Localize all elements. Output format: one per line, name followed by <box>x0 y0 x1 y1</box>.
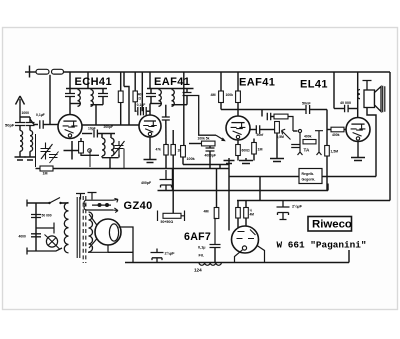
svg-text:2¼µF: 2¼µF <box>165 251 176 256</box>
svg-text:400k: 400k <box>304 134 312 138</box>
wire R4 leg lower <box>135 102 136 111</box>
wire tone right corner <box>288 117 293 132</box>
wire tone branch stub <box>261 110 263 117</box>
resistor R5 ECH41 grid leak <box>79 142 84 154</box>
mains terminal upper <box>26 200 28 207</box>
wire drop to IFT1 primary <box>69 72 71 89</box>
wire AVC link line <box>183 164 229 166</box>
tuning gang frame <box>35 134 37 167</box>
svg-text:50pF: 50pF <box>5 123 15 128</box>
wire 6AF7 bottom left <box>235 250 243 263</box>
wire drop to grid caps <box>141 72 143 111</box>
svg-text:0,1µF: 0,1µF <box>36 113 45 117</box>
wire IFT2 top rail <box>147 88 194 90</box>
tuning gang frame right <box>89 150 91 167</box>
mains terminal lower <box>26 248 28 255</box>
svg-text:200pF: 200pF <box>104 125 114 129</box>
wire IFT2 cap1 stem <box>150 89 152 94</box>
svg-text:47k: 47k <box>156 148 162 152</box>
wire branch2 stem <box>29 117 31 123</box>
wire drop to IFT1 secondary <box>87 72 89 89</box>
wire det cap stem <box>209 146 211 148</box>
wire R19 to grid cap <box>215 219 217 245</box>
wire heater center tap <box>172 169 174 191</box>
mains input terminal top-left <box>25 71 36 73</box>
tube GZ40 rectifier <box>95 219 121 245</box>
ground bar ECH41 cathode <box>64 141 81 160</box>
inductor antenna coil L2 <box>30 131 33 152</box>
resistor R15 tone <box>274 114 288 119</box>
svg-text:50 000: 50 000 <box>42 214 52 218</box>
variable capacitor tuning gang 2 <box>49 152 59 164</box>
svg-text:4000: 4000 <box>19 235 27 239</box>
wire detector feed <box>192 96 217 136</box>
svg-text:10pF: 10pF <box>88 127 96 131</box>
svg-text:400pF: 400pF <box>141 181 152 185</box>
wire AVC bus <box>53 168 229 170</box>
wire L1 stem <box>19 126 21 131</box>
svg-text:4000pF: 4000pF <box>205 154 216 158</box>
svg-text:Gegenk.: Gegenk. <box>302 178 316 182</box>
wire primary top lead <box>60 202 69 204</box>
resistor R21 6AF7 b <box>244 208 249 219</box>
svg-text:100k: 100k <box>226 93 234 97</box>
wire drop to output transformer and EL41 plate <box>357 72 359 118</box>
capacitor electrolytic 2x uF bottom <box>151 249 164 263</box>
box Regelb Gegenk <box>299 169 322 184</box>
wire B+ top bus <box>63 71 390 73</box>
wire feedback bottom line <box>237 200 390 202</box>
resistor 50+50 ohm hum balance <box>163 213 181 218</box>
wire bottom bus riser <box>348 250 350 263</box>
wire drop to R4 <box>134 72 136 91</box>
wire plate cap stem down <box>165 120 167 145</box>
inductor mains primary <box>64 203 68 253</box>
svg-text:1M: 1M <box>43 172 48 176</box>
capacitor electrolytic 2x uF right <box>277 201 290 220</box>
wire drop to R3 <box>120 72 122 91</box>
wire osc coil2 stem <box>110 134 112 139</box>
ground bar oscillator section <box>102 155 119 169</box>
wire IFT2 secondary bottom rail <box>172 104 188 106</box>
capacitor 4000 mains <box>31 234 41 237</box>
resistor R6 AVC on bus <box>40 166 53 171</box>
wire 40000 right lead <box>348 108 358 110</box>
resistor R9 diode load <box>181 146 186 158</box>
wire R17 bottom <box>326 156 328 191</box>
wire riser to gegenk box <box>327 184 329 191</box>
svg-text:100k: 100k <box>187 157 196 161</box>
svg-text:Fil.: Fil. <box>199 254 204 258</box>
inductor IFT1 primary coil <box>78 90 81 107</box>
resistor R13 cathode EAF41 second <box>236 145 241 156</box>
wire IFT2 secondary down to R9 <box>183 72 185 146</box>
wire R11 top <box>172 130 174 145</box>
svg-text:4M: 4M <box>204 210 209 214</box>
resistor R11 cathode 2 <box>171 145 175 156</box>
wire antenna branch link <box>20 116 30 118</box>
resistor R12 detector <box>202 141 216 146</box>
wire R19 top <box>216 169 218 208</box>
wire IFT2 cap1 lower stem <box>150 97 152 104</box>
wire tone line <box>221 109 306 111</box>
wire drop to screen of EL41 <box>333 72 335 109</box>
wire R3 leg <box>120 103 122 126</box>
wire IFT1 secondary bottom rail <box>91 104 104 106</box>
ground EAF41 second cathode <box>239 158 253 164</box>
wire R13 top <box>237 140 239 145</box>
hum balance end bars <box>158 211 185 222</box>
jack TA right pin <box>315 131 323 155</box>
capacitor 4000pF detector <box>206 148 215 151</box>
svg-text:0,1µ: 0,1µ <box>198 246 205 250</box>
wire grid cap out <box>146 110 149 112</box>
wire riser bracket <box>259 177 261 201</box>
wire R5 bottom corner <box>81 153 99 155</box>
wire 6AF7 right leg <box>257 246 265 263</box>
svg-text:Regelb.: Regelb. <box>302 172 315 176</box>
capacitor 50pF antenna <box>15 123 25 126</box>
heater winding loop with pilot lamps <box>84 200 113 210</box>
wire tap with bar <box>36 223 54 234</box>
svg-text:Riweco: Riweco <box>312 218 352 230</box>
wire IFT2 primary bottom rail <box>150 103 162 105</box>
wire drop to R8 <box>237 72 239 91</box>
inductor oscillator coil 1 <box>102 138 105 156</box>
wire EAF41 plate lead <box>149 104 151 116</box>
output transformer tee terminal <box>363 81 372 91</box>
variable capacitor tuning gang 1 <box>41 143 53 160</box>
switch mains <box>50 198 67 204</box>
wire transformer bottom to bus <box>108 251 133 253</box>
tube ECH41 <box>58 115 82 139</box>
resistor R14 1M <box>252 143 257 155</box>
tube EAF41 first <box>139 115 161 137</box>
capacitor 1000pF antenna branch <box>26 123 35 126</box>
inductor oscillator coil 2 <box>111 138 114 156</box>
wire R5 top <box>80 138 82 142</box>
wire plate cap stem up <box>165 105 167 117</box>
wire pot bottom <box>276 133 278 155</box>
svg-text:2¼µF: 2¼µF <box>292 204 303 209</box>
wire gang right section edge <box>123 149 125 169</box>
wire R20 leg <box>237 218 239 228</box>
capacitor 0,1uF 6AF7 <box>210 245 221 248</box>
wire osc top rail <box>98 133 116 135</box>
wire det resistor left lead <box>189 143 202 145</box>
inductor antenna coil L1 <box>20 131 23 152</box>
resistor R4 screen <box>133 91 137 102</box>
wire AVC bus left <box>36 168 41 170</box>
wire IFT2 cap2 lower stem <box>186 96 188 105</box>
wire R9 bottom <box>182 157 184 165</box>
wire GZ40 output <box>119 227 133 263</box>
ground antenna coil L2 <box>25 151 36 160</box>
wire R14 top <box>253 139 255 143</box>
resistor R20 6AF7 a <box>236 208 241 219</box>
wire IFT1 cap1 lower stem <box>69 97 71 104</box>
svg-text:6AF7: 6AF7 <box>184 231 211 243</box>
ground EAF41 first cathode <box>144 137 157 163</box>
wire det to diode arrow <box>216 135 225 140</box>
svg-text:EL41: EL41 <box>300 79 328 91</box>
wire L2 stem <box>29 126 31 131</box>
tube EL41 <box>346 118 370 142</box>
tube EAF41 second <box>226 116 250 140</box>
box Riweco <box>308 217 352 232</box>
svg-text:400k: 400k <box>332 133 340 137</box>
wire R8 leg to plate <box>237 103 239 117</box>
svg-text:0,1µF: 0,1µF <box>137 103 146 107</box>
wire mains top <box>27 202 49 204</box>
capacitor 0.1uF grid series <box>40 120 43 129</box>
resistor R18 400k grid EL41 <box>331 127 344 132</box>
wire IFT1 cap2 lower stem <box>102 97 104 105</box>
wire grid wire <box>327 129 331 131</box>
inductor HV secondary <box>89 212 93 252</box>
capacitor plate bypass EAF41 <box>162 117 170 120</box>
wire IFT1 top rail <box>66 88 107 90</box>
capacitor IFT2 secondary <box>183 93 192 96</box>
wire R11 bottom heater line <box>172 155 174 214</box>
potentiometer 0,5M volume <box>275 122 280 134</box>
wire EAF41 out <box>250 129 256 131</box>
wire R13 bottom <box>237 156 239 161</box>
wire lower mid line <box>158 190 329 192</box>
capacitor IFT2 primary <box>146 94 156 97</box>
wire IFT1 secondary down <box>95 105 97 125</box>
wire IFT1 primary bottom rail <box>70 103 81 105</box>
ground antenna coil L1 <box>15 151 26 160</box>
capacitor TA <box>291 145 300 148</box>
wire grid cap to bus <box>214 248 216 263</box>
wire mains bottom <box>27 248 62 251</box>
inductor filament choke <box>199 263 221 266</box>
resistor R17 1,5M <box>325 146 330 157</box>
resistor R3 400ohm <box>118 91 123 103</box>
wire drop to grid cap junction <box>49 75 51 125</box>
fuse lamp <box>46 236 57 247</box>
svg-text:ECH41: ECH41 <box>75 76 112 88</box>
wire drop to jog <box>123 72 125 87</box>
resistor R7 4M <box>219 91 224 103</box>
ground small grid line <box>224 158 235 164</box>
capacitor 0.1uF grid EAF41 a <box>138 107 141 115</box>
wire B+ right edge down <box>389 72 391 201</box>
transformer tee terminals <box>76 193 97 200</box>
svg-text:1,5M: 1,5M <box>331 150 339 154</box>
capacitor 100pF oscillator <box>94 130 97 138</box>
svg-text:1000: 1000 <box>22 111 30 115</box>
wire speaker return <box>367 108 376 177</box>
wire drop to IFT2 primary <box>149 72 151 89</box>
wire GZ40 bottom <box>88 245 108 252</box>
wire ECH41 plate lead <box>69 104 71 115</box>
wire af to pot <box>260 129 275 131</box>
pin circle tuning gang <box>88 149 92 153</box>
svg-text:EAF41: EAF41 <box>239 77 275 89</box>
wire drop to R7 <box>220 72 222 91</box>
svg-text:50nF: 50nF <box>302 102 311 106</box>
svg-text:EAF41: EAF41 <box>154 76 190 88</box>
svg-text:Ω: Ω <box>138 96 141 100</box>
wire IFT1 cap1 stem <box>69 89 71 94</box>
wire bracket 6AF7 b <box>245 201 247 208</box>
capacitor 40000 feedback <box>345 105 349 113</box>
wire R7 leg to tone line <box>220 103 222 110</box>
jack TA left pin <box>298 133 303 156</box>
inductor IFT2 secondary coil <box>172 90 175 107</box>
filament leads GZ40 <box>89 214 98 248</box>
inductor IFT1 secondary coil <box>91 90 94 107</box>
wire tone line right <box>310 109 327 111</box>
svg-text:4M: 4M <box>250 213 255 217</box>
ground volume pot <box>270 155 284 162</box>
arrowhead diode <box>221 137 226 141</box>
transformer core <box>77 197 80 258</box>
wire bottom bus <box>125 262 349 264</box>
wire tone cap link <box>271 116 274 118</box>
wire bracket 6AF7 <box>237 201 239 208</box>
wire ECH41 to EAF41 grid <box>82 124 139 126</box>
svg-text:40 000: 40 000 <box>340 101 351 105</box>
svg-text:GZ40: GZ40 <box>124 200 153 212</box>
wire grid to tube <box>344 129 346 131</box>
resistor R16 400k TA <box>303 140 316 144</box>
svg-text:TA: TA <box>304 148 310 153</box>
svg-text:50nf: 50nf <box>257 133 265 137</box>
wire feedback mid line right <box>322 176 376 178</box>
capacitor 50nF af <box>256 125 259 134</box>
svg-text:100k 5k: 100k 5k <box>198 137 210 141</box>
terminal bar <box>29 66 31 78</box>
capacitor 50nF coupling to EL41 <box>306 105 310 114</box>
wire link stub <box>219 165 221 169</box>
wire 40000 left lead <box>334 108 345 110</box>
wire to grid cap <box>30 119 38 125</box>
wire R14 bottom <box>253 154 255 161</box>
wire to TA <box>293 130 298 132</box>
capacitor tone <box>267 113 270 121</box>
output transformer primary winding <box>358 90 360 99</box>
ground EL41 cathode <box>351 142 365 161</box>
capacitor 50000 mains <box>31 215 41 218</box>
antenna <box>16 96 25 122</box>
svg-text:W 661 "Paganini": W 661 "Paganini" <box>277 239 367 250</box>
capacitor 0.1uF grid EAF41 b <box>143 107 146 115</box>
wire jog to grid line <box>124 87 129 126</box>
speaker <box>364 90 375 108</box>
wire osc coil1 stem <box>101 134 103 139</box>
wire R10 bottom <box>165 155 167 169</box>
svg-text:1M: 1M <box>258 148 263 152</box>
wire det cap bottom <box>209 151 211 169</box>
svg-text:4M: 4M <box>211 93 216 97</box>
wire feedback mid line <box>229 176 299 178</box>
capacitor IFT1 primary <box>65 94 75 97</box>
resistor R19 4M 6AF7 <box>214 208 219 219</box>
inductor IFT2 primary coil <box>159 90 162 107</box>
wire corner down x327 <box>326 110 328 146</box>
trimmer capacitor oscillator <box>114 141 125 157</box>
wire mains vertical <box>35 203 37 251</box>
svg-text:50+50Ω: 50+50Ω <box>161 220 174 224</box>
wire IFT1 cap2 stem <box>102 89 104 94</box>
resistor R2 series top-left <box>52 69 64 74</box>
wire R21 leg <box>245 218 247 227</box>
tube 6AF7 magic eye <box>232 226 259 253</box>
resistor R8 100k <box>236 91 241 103</box>
svg-text:600Ω: 600Ω <box>242 149 251 153</box>
svg-text:124: 124 <box>194 268 202 273</box>
wire ECH41 osc grid <box>82 133 92 135</box>
wire IFT2 cap2 stem <box>186 89 188 93</box>
wire grid AF line down <box>228 161 230 231</box>
wire grid cap to ECH41 <box>44 124 59 126</box>
resistor R1 series top-left <box>36 69 49 74</box>
capacitor IFT1 secondary <box>98 94 108 97</box>
capacitor electrolytic 400pF <box>160 170 173 191</box>
wiper arrow volume pot <box>282 129 291 139</box>
resistor R10 cathode <box>164 145 168 156</box>
